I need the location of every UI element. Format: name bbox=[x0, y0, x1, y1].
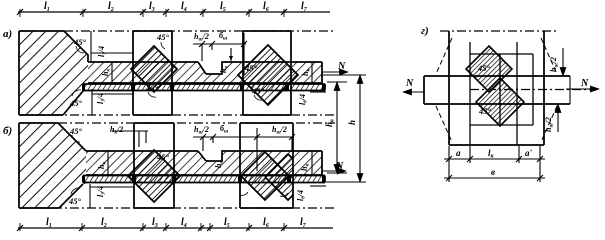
svg-text:l6/4: l6/4 bbox=[298, 94, 309, 105]
svg-text:45°: 45° bbox=[69, 98, 83, 108]
svg-text:45°: 45° bbox=[156, 152, 170, 162]
svg-text:б): б) bbox=[3, 125, 12, 137]
svg-text:а): а) bbox=[3, 28, 12, 40]
svg-text:a': a' bbox=[525, 148, 533, 158]
svg-text:45°: 45° bbox=[156, 32, 170, 42]
svg-text:N: N bbox=[335, 161, 344, 172]
svg-text:N: N bbox=[580, 78, 589, 89]
svg-text:45°: 45° bbox=[69, 126, 83, 136]
svg-text:N: N bbox=[337, 61, 346, 72]
svg-text:l3/4: l3/4 bbox=[96, 186, 107, 197]
svg-text:45°: 45° bbox=[145, 83, 159, 93]
svg-text:45°: 45° bbox=[251, 86, 265, 96]
svg-text:a: a bbox=[456, 148, 461, 158]
svg-text:45°: 45° bbox=[68, 196, 82, 206]
svg-text:l6/4: l6/4 bbox=[296, 190, 307, 201]
svg-text:45°: 45° bbox=[478, 106, 492, 116]
svg-text:45°: 45° bbox=[73, 37, 87, 47]
svg-text:в: в bbox=[491, 167, 495, 177]
svg-text:h: h bbox=[347, 120, 357, 125]
svg-text:45°: 45° bbox=[477, 63, 491, 73]
svg-text:N: N bbox=[405, 78, 414, 89]
svg-text:45°: 45° bbox=[244, 63, 258, 73]
svg-text:hк/2: hк/2 bbox=[110, 125, 123, 136]
svg-text:l3/4: l3/4 bbox=[96, 93, 107, 104]
svg-text:l3/4: l3/4 bbox=[97, 46, 108, 57]
svg-text:г): г) bbox=[421, 25, 429, 37]
